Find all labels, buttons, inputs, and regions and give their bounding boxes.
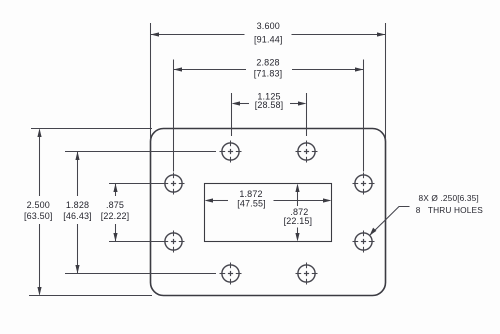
dimension line 1.872	[213, 200, 324, 202]
arrowhead 1.828 top	[75, 152, 79, 161]
svg-text:[63.50]: [63.50]	[24, 211, 53, 221]
extension lines left dim .875	[109, 184, 163, 242]
arrowhead .872 top	[295, 184, 299, 193]
hole MR2	[353, 231, 375, 253]
arrowhead 2.500 bottom	[37, 287, 41, 296]
hole ML2	[163, 231, 185, 253]
dimension line .875	[115, 184, 117, 241]
arrowhead .875 top	[113, 184, 117, 193]
extension lines left dim 2.500	[29, 129, 152, 296]
dimension line 1.828	[77, 152, 79, 273]
extension lines left dim 1.828	[65, 152, 216, 274]
extension lines top dim 3.600	[151, 23, 386, 141]
arrowhead 1.828 bottom	[75, 265, 79, 274]
waveguide aperture	[205, 184, 332, 242]
svg-text:[91.44]: [91.44]	[254, 35, 283, 45]
arrowhead 1.872 right	[323, 198, 332, 202]
callout 8X holes	[416, 193, 483, 215]
arrowhead 2.828 right	[355, 67, 364, 71]
dimension line 2.500	[39, 130, 41, 295]
plate outline	[151, 129, 386, 296]
leader line 8X holes	[370, 207, 410, 236]
dimension line 1.125	[239, 103, 299, 105]
extension lines dim 1.125	[232, 93, 307, 136]
hole ML1	[163, 173, 185, 195]
svg-text:[22.15]: [22.15]	[284, 216, 313, 226]
svg-text:8X Ø .250[6.35]: 8X Ø .250[6.35]	[419, 193, 479, 203]
arrowhead leader	[370, 228, 377, 236]
dimension line .872	[297, 192, 299, 234]
svg-text:[71.83]: [71.83]	[254, 68, 283, 78]
dimension line 3.600	[151, 34, 386, 36]
svg-text:[28.58]: [28.58]	[255, 100, 284, 110]
arrowhead .875 bottom	[113, 233, 117, 242]
svg-text:1.828: 1.828	[66, 200, 89, 210]
arrowhead 1.872 left	[205, 198, 214, 202]
arrowhead 1.125 right	[298, 101, 307, 105]
arrowhead .872 bottom	[295, 233, 299, 242]
arrowhead 2.500 top	[37, 129, 41, 138]
dimension line 2.828	[174, 69, 364, 71]
svg-text:[46.43]: [46.43]	[63, 211, 92, 221]
arrowhead 1.125 left	[232, 101, 241, 105]
svg-text:[47.55]: [47.55]	[237, 198, 266, 208]
svg-text:[22.22]: [22.22]	[101, 211, 130, 221]
extension lines dim 2.828	[174, 60, 364, 172]
arrowhead 3.600 left	[151, 32, 160, 36]
hole T1	[220, 141, 242, 163]
svg-text:8 THRU HOLES: 8 THRU HOLES	[416, 205, 483, 215]
hole B1	[220, 263, 242, 285]
arrowhead 2.828 left	[174, 67, 183, 71]
svg-text:.875: .875	[106, 200, 124, 210]
arrowhead 3.600 right	[377, 32, 386, 36]
hole T2	[296, 141, 318, 163]
hole MR1	[353, 173, 375, 195]
svg-text:2.500: 2.500	[27, 200, 50, 210]
hole B2	[296, 263, 318, 285]
svg-text:2.828: 2.828	[256, 58, 279, 68]
svg-text:3.600: 3.600	[257, 21, 280, 31]
